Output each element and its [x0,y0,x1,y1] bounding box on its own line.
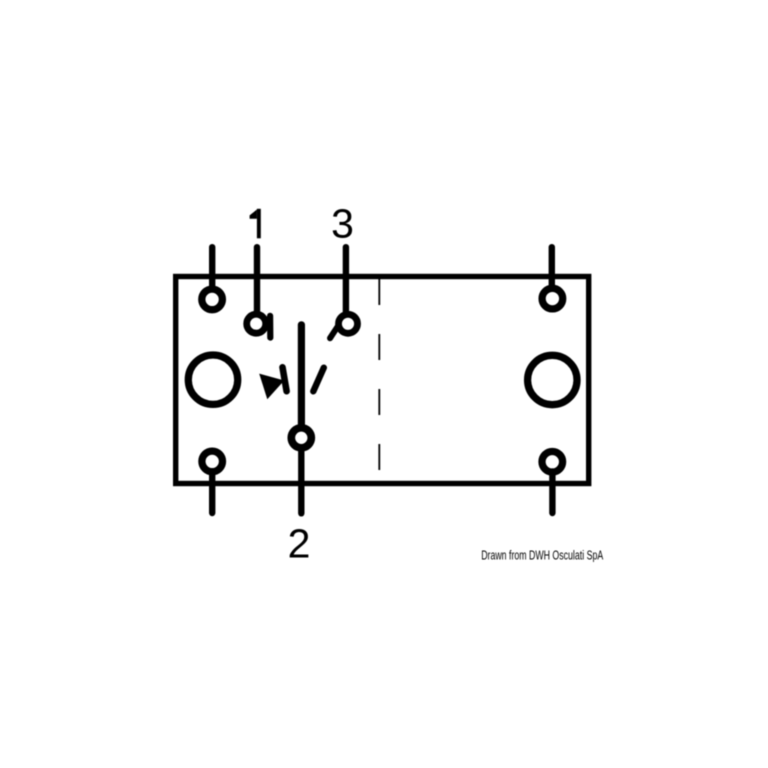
svg-text:2: 2 [288,520,311,566]
svg-text:Drawn from DWH Osculati SpA: Drawn from DWH Osculati SpA [481,548,603,563]
svg-text:3: 3 [331,200,354,246]
